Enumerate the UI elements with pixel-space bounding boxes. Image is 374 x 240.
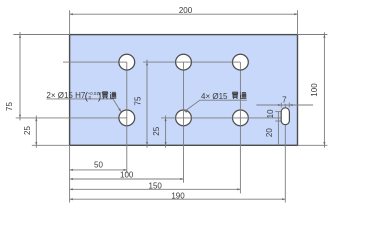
- extension line slot center vertical above: [284, 104, 286, 108]
- dimension 7 slot width: [256, 104, 313, 106]
- label glyph 通 (4x callout): [240, 92, 246, 98]
- dimension 150 bottom: [70, 188, 241, 190]
- dimension 25 left: [35, 116, 37, 148]
- dimension 100 right: [323, 32, 325, 147]
- arrow 100b left: [70, 178, 73, 180]
- hole A2 center mark: [176, 62, 192, 70]
- extension line slot bottom arc center: [275, 120, 281, 122]
- arrow 7 left: [278, 104, 281, 106]
- arrow 50 right: [124, 169, 127, 171]
- arrow 150 right: [237, 188, 240, 190]
- arrow 100 top: [323, 35, 325, 38]
- arrow 150 left: [70, 188, 73, 190]
- extension line slot right side: [288, 103, 290, 108]
- svg-text:100: 100: [120, 171, 134, 180]
- hole A1 center mark: [119, 62, 127, 70]
- slot (obround): [281, 108, 289, 125]
- arrow 190 left: [70, 198, 73, 200]
- svg-text:2× Ø15 H7: 2× Ø15 H7: [46, 91, 85, 100]
- svg-text:200: 200: [179, 6, 193, 15]
- svg-text:75: 75: [5, 102, 14, 111]
- extension line plate left edge above (200 dim): [69, 10, 71, 34]
- label glyph 通 (2x callout): [110, 92, 116, 98]
- extension line bottom row left (75/25 dims): [16, 117, 127, 119]
- arrow 75 mid bottom: [146, 142, 148, 145]
- dimension 75 left: [19, 32, 21, 120]
- arrow 100b right: [180, 178, 183, 180]
- arrow 75 left top: [19, 35, 21, 38]
- dimension 190 bottom: [70, 198, 286, 200]
- leader 2x label: [46, 99, 121, 112]
- label glyph 贯 (2x callout): [102, 92, 108, 99]
- arrow 190 right: [282, 198, 285, 200]
- svg-text:75: 75: [133, 96, 142, 105]
- centerline top row horizontal left: [63, 61, 127, 63]
- svg-text:25: 25: [152, 126, 161, 135]
- hole A2 top row col 2: [176, 54, 192, 70]
- dimension 10-20 line vertical: [277, 112, 279, 146]
- arrow leader 4x: [185, 111, 188, 113]
- arrow leader 2x: [118, 108, 121, 111]
- dimension 25 middle: [165, 116, 167, 148]
- hole B2 bottom row col 2: [176, 110, 192, 126]
- centerline bottom row mid to slot: [161, 117, 281, 119]
- extension line right top (100 dim): [298, 34, 328, 36]
- hole A1 top row col 1: [119, 54, 135, 70]
- svg-text:10: 10: [266, 109, 275, 118]
- dimension 100 bottom: [70, 178, 184, 180]
- svg-text:25: 25: [23, 126, 32, 135]
- svg-text:4× Ø15: 4× Ø15: [201, 92, 228, 101]
- dimension 50 bottom: [70, 169, 127, 171]
- extension line 25 left bottom: [32, 144, 70, 146]
- svg-text:190: 190: [171, 192, 185, 201]
- arrow 75 left bottom: [19, 115, 21, 118]
- hole A3 center mark: [233, 62, 241, 70]
- hole B1 center mark: [119, 110, 127, 127]
- svg-text:50: 50: [94, 161, 103, 170]
- dimension 75 middle: [146, 60, 148, 148]
- svg-text:20: 20: [265, 128, 274, 137]
- arrow 25 left bottom: [35, 142, 37, 145]
- arrow 25 mid bottom: [165, 142, 167, 145]
- svg-text:): ): [98, 91, 101, 102]
- extension line column 1 vertical: [126, 62, 128, 173]
- extension line left top (75 dim): [13, 34, 69, 36]
- dimension 200 top: [70, 13, 298, 15]
- extension line plate right edge above (200 dim): [297, 10, 299, 34]
- label 2x Ø15 H7 tol: [46, 91, 101, 103]
- arrow 100 bottom: [323, 142, 325, 145]
- plate outline: [70, 35, 298, 146]
- label glyph 贯 (4x callout): [232, 92, 238, 99]
- arrow 25 mid top: [165, 118, 167, 121]
- svg-text:7: 7: [282, 95, 287, 104]
- leader 4x label: [185, 100, 247, 111]
- extension line slot left side: [280, 103, 282, 108]
- hole B3 center mark: [239, 110, 241, 127]
- extension line slot top arc center: [275, 111, 281, 113]
- extension line column 2 vertical: [183, 62, 185, 183]
- hole B1 bottom row col 1: [119, 110, 135, 126]
- extension line slot center vertical below: [284, 125, 286, 203]
- extension line right bottom (100 dim): [298, 144, 328, 146]
- extension line plate left edge below: [69, 145, 71, 202]
- arrow 200 left: [70, 13, 73, 15]
- hole B3 bottom row col 3: [233, 110, 249, 126]
- centerline top row horizontal right: [143, 61, 240, 63]
- svg-text:150: 150: [149, 182, 163, 191]
- arrow 75 mid top: [146, 62, 148, 65]
- extension line column 3 vertical: [239, 62, 241, 193]
- arrow 25 left top: [35, 118, 37, 121]
- hole A3 top row col 3: [233, 54, 249, 70]
- arrow 50 left: [70, 169, 73, 171]
- svg-text:100: 100: [310, 83, 319, 97]
- arrow 200 right: [294, 13, 297, 15]
- hole B2 center mark: [183, 110, 185, 127]
- arrow 7 right: [289, 104, 292, 106]
